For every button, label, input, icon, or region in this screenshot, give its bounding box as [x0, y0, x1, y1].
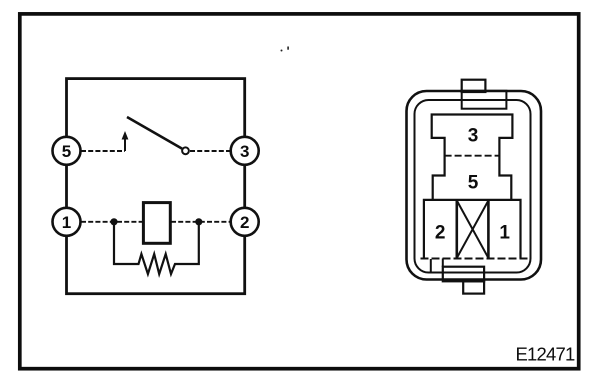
relay body outline	[67, 79, 245, 294]
bottom lock tab small	[463, 281, 484, 293]
inner shell step	[430, 259, 432, 273]
top lock tab small	[462, 80, 486, 92]
divider between cavity 3 and 5	[445, 155, 500, 157]
junction node right	[195, 218, 202, 225]
pin 5 terminal	[53, 137, 81, 165]
terminal label 1	[499, 222, 510, 243]
svg-text:5: 5	[62, 142, 71, 161]
pin 2 terminal	[231, 208, 259, 236]
bottom lock tab wide	[443, 267, 484, 282]
svg-text:3: 3	[468, 126, 479, 147]
switch actuator arrow	[122, 131, 129, 151]
cavity label 3	[468, 126, 479, 147]
figure code E12471	[516, 344, 575, 365]
svg-text:E12471: E12471	[516, 344, 575, 365]
svg-text:3: 3	[240, 142, 249, 161]
switch blade	[127, 117, 182, 149]
wire pin5 to switch	[81, 150, 125, 152]
pin 1 terminal	[53, 208, 81, 236]
bottom tab step	[442, 259, 444, 268]
wire contact to pin3	[190, 150, 231, 152]
keyway X mark	[457, 201, 489, 259]
terminal row divider right	[487, 200, 490, 259]
resistor R (parallel)	[114, 222, 199, 274]
switch contact	[182, 147, 189, 154]
terminal label 2	[435, 222, 446, 243]
pin 3 terminal	[231, 137, 259, 165]
wire pin1 to coil	[81, 221, 143, 223]
svg-text:5: 5	[468, 173, 479, 194]
top lock tab wide	[462, 91, 507, 109]
svg-text:1: 1	[499, 222, 510, 243]
svg-text:1: 1	[62, 213, 71, 232]
junction node left	[110, 218, 117, 225]
terminal row divider left	[455, 200, 458, 259]
connector outer shell	[407, 91, 542, 280]
wire coil to pin2	[171, 221, 231, 223]
coil L1	[143, 203, 170, 244]
terminal row box	[424, 200, 521, 259]
svg-text:2: 2	[435, 222, 446, 243]
connector inner shell	[415, 100, 531, 273]
terminal row bottom line	[421, 258, 532, 260]
cavity outline (pins 3 and 5)	[432, 115, 513, 200]
scan speck dots	[281, 47, 289, 52]
svg-text:2: 2	[240, 213, 249, 232]
cavity label 5	[468, 173, 479, 194]
